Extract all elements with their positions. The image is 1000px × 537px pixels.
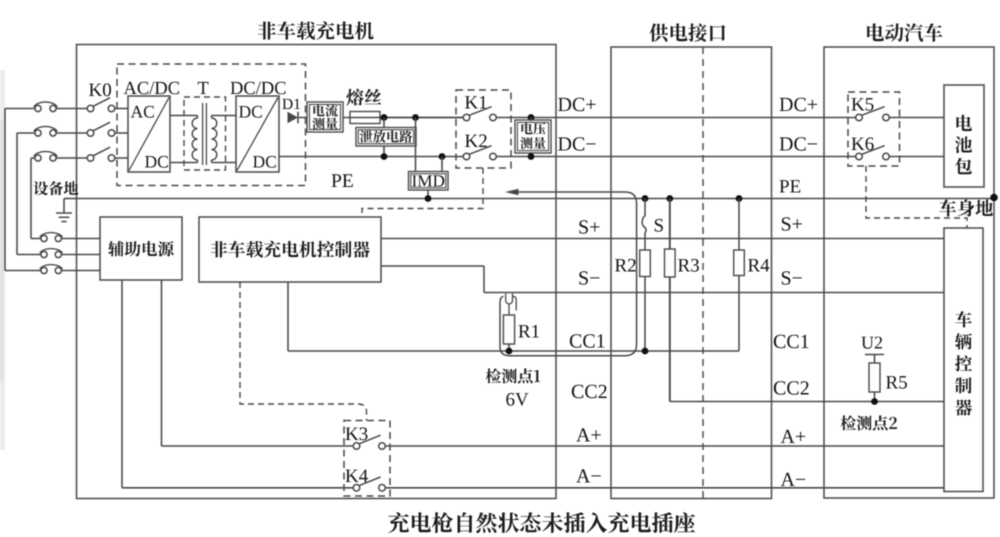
node vehicle body ground <box>990 194 998 202</box>
fuse label 熔丝 <box>346 89 381 106</box>
node DC+ to voltage measurement <box>528 114 535 121</box>
switch S label <box>655 219 663 232</box>
relay K4 <box>353 485 360 492</box>
wire aux to K4 <box>121 280 123 488</box>
node DC+ to IMD <box>412 114 419 121</box>
battery pack box 电池包 <box>944 85 984 187</box>
resistor R2 <box>640 250 651 277</box>
label S+ right <box>782 217 802 230</box>
wire CC2 rail <box>670 401 944 403</box>
electric vehicle box <box>824 47 994 498</box>
section title 供电接口 (supply interface) <box>649 23 725 41</box>
supply interface box <box>611 47 772 499</box>
supply interface split dashed line <box>702 47 704 499</box>
label A- right <box>781 473 806 486</box>
node PE to R3 <box>666 195 673 202</box>
label CC1 right <box>774 335 809 348</box>
node discharge circuit to DC- <box>383 146 385 157</box>
switch K0 label <box>89 83 111 96</box>
contact CC1 socket above R1 <box>513 296 516 310</box>
label CC2 right <box>774 381 809 394</box>
resistor R4 lead top <box>738 199 740 251</box>
transformer dashed box <box>184 97 226 170</box>
resistor R3 lead bottom <box>669 277 671 402</box>
relay K6 <box>856 153 863 160</box>
label PE right <box>780 180 801 192</box>
resistor R2 lead top <box>644 233 646 250</box>
label DC+ left <box>558 98 596 111</box>
aux input plug contact pair 2 <box>41 251 47 257</box>
label T <box>198 82 209 94</box>
IMD box <box>409 172 449 191</box>
terminal U2 open bar <box>865 354 884 356</box>
AC input plug contact pair 2 <box>35 130 41 136</box>
arrow head charging gun CC1 <box>505 189 519 195</box>
resistor R4 lead bottom <box>738 276 740 352</box>
transformer secondary winding <box>212 118 217 160</box>
relay K5/K6 dashed box <box>848 92 900 166</box>
transformer primary winding <box>192 118 197 160</box>
wire transformer to DC/DC top <box>211 116 213 119</box>
node PE to R4 <box>736 195 743 202</box>
node detection point 2 <box>871 398 878 405</box>
wire S- rail <box>381 265 484 267</box>
label CC2 left <box>572 385 607 398</box>
node DC+ to discharge circuit <box>381 114 388 121</box>
wire aux line2 <box>61 254 100 256</box>
resistor R2 label <box>615 259 636 272</box>
wire K0 to AC/DC 1 <box>115 108 128 110</box>
label U2 <box>861 337 882 349</box>
resistor R5 <box>869 363 880 392</box>
relay K1 <box>463 114 470 121</box>
wire AC line1 to K0 <box>56 108 87 110</box>
vehicle controller box 车辆控制器 <box>944 228 983 492</box>
node PE to switch S <box>642 195 649 202</box>
switch K0 pole1 <box>87 105 94 112</box>
wire AC/DC to transformer bottom <box>170 162 198 164</box>
control dashed line charger controller to K1K2 <box>362 168 483 217</box>
wire AC line3 to K0 <box>56 157 87 159</box>
DC/DC converter box <box>236 96 279 172</box>
label A+ right <box>781 430 806 443</box>
transformer core <box>202 103 204 165</box>
wire AC/DC to transformer top <box>170 115 198 117</box>
wire loop left phase3 <box>31 157 35 159</box>
resistor R4 <box>734 250 745 276</box>
resistor R1 label <box>519 325 540 338</box>
label DC/DC <box>231 82 286 94</box>
AC/DC converter box <box>128 96 170 172</box>
switch K0 pole3 <box>87 155 94 162</box>
label DC+ right <box>780 98 818 111</box>
AC input plug contact pair 1 <box>35 105 41 111</box>
wire DC+ rail <box>299 117 307 119</box>
label S- left <box>579 271 599 284</box>
resistor R4 label <box>748 259 769 272</box>
wire aux to K3 <box>161 280 163 446</box>
label CC1 left <box>570 334 605 347</box>
resistor R1 <box>503 315 514 344</box>
wire charging-gun CC1 loop <box>500 192 637 356</box>
relay K3/K4 dashed box <box>344 421 390 497</box>
wire aux line3 <box>61 270 100 272</box>
control dashed line K5K6 to vehicle controller <box>866 166 967 228</box>
node R2 CC1 junction <box>642 348 649 355</box>
auxiliary power box 辅助电源 <box>100 217 182 280</box>
resistor R2 lead bottom <box>644 277 646 352</box>
wire A+ rail <box>162 445 354 447</box>
AC/DC converter text AC <box>131 106 154 118</box>
label DC- left <box>558 137 596 150</box>
wire loop left phase2 <box>17 132 35 134</box>
label 检测点1 <box>486 368 541 383</box>
resistor R3 lead top <box>669 199 671 250</box>
AC/DC converter text DC <box>145 156 168 168</box>
AC input plug contact pair 3 <box>35 155 41 161</box>
label 6V <box>506 393 528 406</box>
resistor R5 label <box>886 376 907 389</box>
node voltage measurement to DC- <box>530 153 532 157</box>
diode D1 <box>288 112 299 124</box>
voltage measurement box 电压测量 <box>515 120 551 153</box>
wire aux line1 <box>61 238 100 240</box>
relay K2 <box>463 153 470 160</box>
aux input plug contact pair 1 <box>41 235 47 241</box>
wire AC line2 to K0 <box>56 132 87 134</box>
wire DC- rail <box>279 156 463 158</box>
equipment ground symbol <box>56 212 72 214</box>
aux input plug contact pair 3 <box>41 267 47 273</box>
relay K3 label <box>346 427 368 440</box>
label A+ left <box>576 428 601 441</box>
section title 电动汽车 (electric vehicle) <box>867 23 942 41</box>
wire K0 to AC/DC 2 <box>115 132 128 134</box>
DC/DC converter text DC bottom <box>253 156 276 168</box>
wire A- rail <box>122 487 353 489</box>
control dashed line controller to K3K4 <box>240 282 367 421</box>
relay K3 <box>353 443 360 450</box>
label 检测点2 <box>841 415 897 430</box>
label S- right <box>782 271 802 284</box>
label S+ left <box>579 220 599 233</box>
wire PE rail <box>77 198 995 200</box>
relay K2 label <box>465 134 487 147</box>
label 车身地 (body ground) <box>939 199 993 216</box>
DC/DC converter text DC top <box>239 106 262 118</box>
diode D1 label <box>282 99 300 109</box>
converter stage dashed box <box>117 64 306 186</box>
switch S blade <box>642 199 646 233</box>
wire S+ rail <box>381 238 944 240</box>
wire K0 to AC/DC 3 <box>115 157 128 159</box>
left edge scan shading artifact <box>0 70 5 450</box>
current measurement box 电流测量 <box>307 102 343 132</box>
discharge circuit box 泄放电路 <box>356 128 416 147</box>
label A- left <box>576 469 601 482</box>
node DC- to IMD <box>439 153 446 160</box>
label DC- right <box>780 137 818 150</box>
off-board charger outer box <box>77 45 557 499</box>
relay K5 label <box>852 98 874 111</box>
switch K0 pole2 <box>87 130 94 137</box>
resistor R3 label <box>678 259 699 272</box>
node detection point 1 <box>506 348 513 355</box>
relay K1/K2 dashed box <box>456 90 511 168</box>
wire transformer to DC/DC bottom <box>211 160 213 163</box>
fuse 熔丝 element <box>350 112 380 124</box>
relay K5 <box>856 114 863 121</box>
resistor R3 <box>665 249 676 277</box>
label AC/DC <box>124 82 179 94</box>
bottom caption 充电枪自然状态未插入充电插座 <box>388 512 695 533</box>
node IMD to PE <box>427 190 429 199</box>
wire loop left phase1 <box>5 108 35 110</box>
relay K6 label <box>852 137 874 150</box>
relay K1 label <box>465 96 487 109</box>
label PE (charger side) <box>332 174 353 187</box>
section title 非车载充电机 (off-board charger) <box>258 21 374 39</box>
wire CC1 rail <box>287 282 289 351</box>
charger controller box 非车载充电机控制器 <box>199 217 381 282</box>
wire to equipment ground <box>64 198 77 200</box>
label 设备地 (equipment ground) <box>34 181 79 195</box>
relay K4 label <box>346 470 368 483</box>
